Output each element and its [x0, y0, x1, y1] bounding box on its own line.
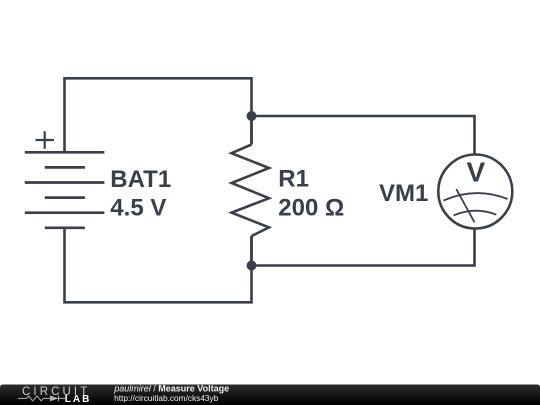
battery BAT1 — [25, 152, 105, 228]
svg-text:R1: R1 — [278, 166, 309, 193]
wire bottom branch to voltmeter — [252, 228, 475, 266]
svg-text:paulmirel / Measure Voltage: paulmirel / Measure Voltage — [113, 383, 229, 393]
svg-text:http://circuitlab.com/cks43yb: http://circuitlab.com/cks43yb — [114, 393, 219, 403]
svg-text:V: V — [466, 157, 485, 188]
wire bottom-left loop — [65, 229, 252, 303]
node A top junction dot — [247, 111, 257, 121]
wire top branch to voltmeter — [252, 116, 475, 155]
node B bottom junction dot — [247, 261, 257, 271]
svg-text:LAB: LAB — [65, 394, 92, 405]
wire top-left loop — [65, 78, 252, 152]
svg-text:VM1: VM1 — [379, 180, 428, 207]
resistor R1 — [232, 145, 270, 237]
voltmeter VM1 — [438, 155, 512, 229]
svg-text:BAT1: BAT1 — [110, 166, 171, 193]
svg-text:4.5 V: 4.5 V — [110, 195, 166, 222]
resistor lead bottom — [250, 236, 253, 266]
svg-text:200 Ω: 200 Ω — [278, 195, 344, 222]
resistor lead top — [250, 116, 253, 145]
battery plus sign — [36, 131, 55, 149]
logo circuit line with resistor and diode — [18, 395, 65, 401]
